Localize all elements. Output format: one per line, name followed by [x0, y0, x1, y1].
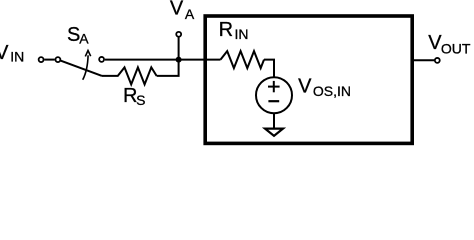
wire contact to node A	[105, 59, 179, 61]
svg-text:V: V	[170, 0, 184, 19]
switch SA actuation arrow	[83, 51, 91, 80]
svg-text:OUT: OUT	[441, 40, 471, 56]
svg-text:V: V	[298, 75, 312, 97]
amplifier box	[205, 16, 412, 143]
ground	[265, 129, 283, 136]
resistor RIN	[221, 51, 265, 68]
node A junction	[176, 57, 182, 63]
switch SA arm	[61, 61, 102, 76]
svg-text:OS,IN: OS,IN	[313, 83, 351, 99]
label VOUT	[428, 32, 471, 56]
switch SA pivot	[55, 57, 60, 62]
label RS	[123, 85, 145, 108]
terminal VA	[176, 32, 181, 37]
wire RS to node A	[157, 60, 179, 76]
resistor RS	[102, 67, 157, 84]
input terminal VIN	[39, 57, 44, 62]
svg-text:IN: IN	[10, 48, 24, 64]
wire RIN to source	[264, 60, 274, 77]
wire box to VOUT terminal	[412, 59, 435, 61]
svg-text:S: S	[136, 92, 145, 108]
svg-text:A: A	[185, 6, 195, 22]
label RIN	[219, 19, 249, 42]
wire terminal to switch pivot	[44, 59, 54, 61]
label VIN	[0, 42, 24, 64]
wire node A up to VA terminal	[178, 37, 180, 59]
svg-text:A: A	[79, 31, 89, 47]
svg-text:V: V	[0, 42, 9, 64]
svg-text:R: R	[219, 19, 233, 41]
source VOS,IN	[256, 77, 292, 113]
label SA	[67, 24, 89, 47]
label VOS,IN	[298, 75, 351, 99]
switch SA contact	[99, 57, 104, 62]
wire node A into box	[179, 59, 221, 61]
svg-text:IN: IN	[235, 26, 249, 42]
terminal VOUT	[435, 58, 440, 63]
label VA	[170, 0, 195, 22]
wire source to ground	[273, 113, 275, 128]
